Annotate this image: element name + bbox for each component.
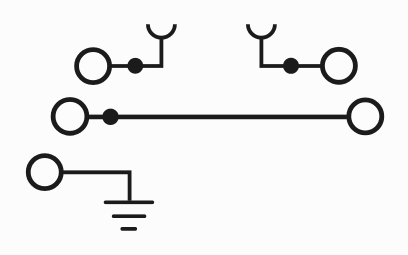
wire from X1.3 to ground — [63, 172, 129, 200]
junction dot (top-left) — [127, 58, 143, 74]
ground bar 2 (middle) — [114, 214, 145, 218]
terminal circle X1.3 (bottom-left) — [28, 156, 61, 189]
wire from X1.1 to plug stem — [111, 37, 161, 66]
terminal circle X1.1 (top-left) — [77, 50, 110, 83]
terminal circle X1.2 (middle-left) — [53, 100, 87, 134]
wire from plug stem to X2.1 — [261, 37, 320, 66]
junction dot (middle) — [102, 109, 118, 125]
junction dot (top-right) — [283, 58, 299, 74]
ground bar 3 (bottom, shortest) — [122, 227, 135, 231]
plug/socket fork contact (top-right) — [248, 24, 275, 38]
plug/socket fork contact (top-left) — [148, 24, 175, 38]
terminal circle X2.1 (top-right) — [322, 49, 355, 82]
through wire (middle bus) — [89, 115, 347, 120]
terminal circle X2.2 (middle-right) — [349, 100, 382, 133]
ground bar 1 (top, widest) — [106, 200, 153, 204]
